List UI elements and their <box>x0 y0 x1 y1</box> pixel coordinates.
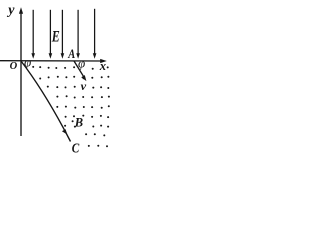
svg-text:v: v <box>81 79 87 93</box>
x-axis <box>0 59 107 63</box>
trajectory arc O to C <box>21 61 71 142</box>
svg-text:C: C <box>72 142 80 154</box>
E field arrow 2 <box>49 10 53 59</box>
svg-text:φ: φ <box>78 55 85 70</box>
arrowhead on trajectory <box>62 129 68 135</box>
svg-text:A: A <box>67 47 75 61</box>
velocity vector v at A <box>74 61 86 81</box>
y-axis <box>19 7 23 136</box>
svg-text:E: E <box>51 29 60 46</box>
E field arrow 5 <box>93 9 97 59</box>
E field arrow 3 <box>61 10 65 59</box>
svg-text:x: x <box>99 59 106 73</box>
svg-text:O: O <box>10 61 18 72</box>
svg-text:y: y <box>6 3 15 18</box>
E field arrow 4 <box>76 10 80 59</box>
E field arrow 1 <box>31 10 35 59</box>
B field dots (field out of page) <box>32 66 110 147</box>
